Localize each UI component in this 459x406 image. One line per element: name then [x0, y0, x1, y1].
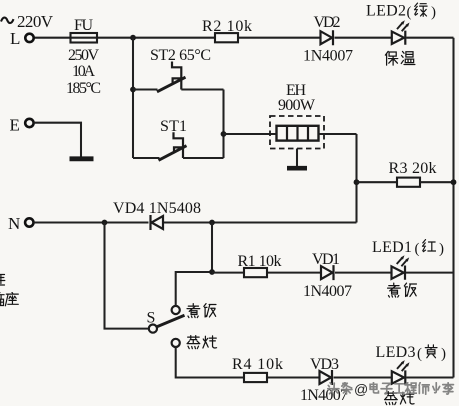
diode VD2: [321, 30, 334, 45]
svg-text:): ): [439, 241, 444, 257]
thermostat ST1: [159, 132, 187, 160]
wire zhengdun contact to R4 line: [176, 347, 244, 378]
label zhufan switch: [187, 304, 216, 318]
svg-text:1N4007: 1N4007: [303, 283, 352, 300]
switch contact zhufan: [172, 306, 180, 314]
svg-text:LED1: LED1: [372, 239, 412, 256]
label zhengdun switch: [187, 336, 217, 349]
svg-text:ST2 65°C: ST2 65°C: [150, 47, 211, 64]
fuse FU: [71, 33, 98, 43]
wire ST branch vertical: [222, 90, 224, 159]
LED2: [392, 20, 410, 45]
wire R1 row: [212, 272, 454, 274]
svg-text:(: (: [415, 241, 420, 257]
wire N bus: [34, 221, 357, 223]
wire EH to N vertical: [355, 134, 357, 223]
svg-text:220V: 220V: [17, 12, 54, 31]
label LED1 (red): [372, 239, 444, 257]
wire L bus top: [34, 37, 454, 39]
wire R3 right: [420, 181, 454, 183]
junction dot F: [102, 220, 108, 226]
wire N to switch pole: [105, 223, 149, 329]
resistor R2: [215, 33, 238, 42]
terminal L: [25, 34, 33, 42]
svg-text:(: (: [417, 346, 422, 362]
svg-text:L: L: [10, 29, 20, 48]
svg-text:900W: 900W: [278, 97, 316, 114]
LED1: [392, 255, 410, 280]
svg-text:VD4 1N5408: VD4 1N5408: [113, 200, 201, 217]
switch S blade: [157, 315, 185, 327]
svg-text:FU: FU: [74, 17, 93, 34]
svg-text:S: S: [147, 310, 156, 327]
svg-text:N: N: [8, 214, 20, 233]
wire to EH: [224, 133, 277, 135]
svg-text:@: @: [354, 381, 368, 397]
label baowen: [385, 51, 415, 65]
ground under EH: [287, 149, 307, 169]
svg-text:E: E: [10, 116, 20, 135]
label zhufan LED1: [388, 283, 417, 297]
label LED2 (green): [366, 3, 436, 21]
junction dot D: [354, 179, 360, 185]
svg-text:R1 10k: R1 10k: [238, 253, 282, 270]
switch S pole contact: [149, 325, 157, 333]
svg-text:R3 20k: R3 20k: [389, 160, 437, 177]
wire EH right: [319, 133, 357, 135]
wire ST1 right: [183, 157, 224, 159]
terminal N: [25, 218, 33, 226]
svg-text:LED3: LED3: [376, 344, 416, 361]
svg-text:): ): [431, 5, 436, 21]
junction dot B: [130, 87, 136, 93]
heater EH dashed enclosure: [270, 116, 324, 149]
svg-text:1N4007: 1N4007: [303, 48, 353, 65]
svg-text:LED2: LED2: [366, 3, 406, 20]
wire right bus vertical: [452, 38, 454, 378]
junction dot A: [130, 35, 136, 41]
svg-text:VD2: VD2: [314, 14, 341, 31]
wire ST1 left: [133, 157, 160, 159]
label LED3 (yellow): [376, 344, 447, 362]
wire R3 left: [357, 181, 398, 183]
svg-text:(: (: [407, 5, 412, 21]
wire zhufan contact to R1 line: [176, 272, 212, 306]
svg-text:VD1: VD1: [312, 251, 340, 268]
ground E: [70, 156, 94, 161]
svg-text:ST1: ST1: [160, 118, 187, 135]
svg-text:): ): [441, 346, 446, 362]
wire E to ground: [34, 123, 81, 157]
node label chazuo partial left edge: [0, 292, 18, 306]
diode VD3: [320, 370, 333, 385]
svg-text:VD3: VD3: [310, 356, 339, 373]
svg-text:R4 10k: R4 10k: [232, 356, 283, 373]
svg-text:R2 10k: R2 10k: [202, 18, 252, 35]
wire left branch vertical: [132, 38, 134, 158]
terminal E: [25, 119, 33, 127]
node label jian partial left edge: [0, 275, 5, 287]
junction dot C: [221, 131, 227, 137]
wire ST2 right: [181, 88, 223, 90]
resistor R1: [244, 268, 267, 277]
label ~220V: [1, 18, 14, 23]
LED3: [392, 360, 410, 385]
heater EH element: [277, 126, 319, 141]
svg-text:10A: 10A: [72, 63, 95, 80]
svg-text:250V: 250V: [68, 47, 99, 64]
svg-text:185°C: 185°C: [66, 80, 101, 97]
resistor R3: [397, 178, 420, 187]
label zhengdun LED3: [385, 392, 415, 405]
thermostat ST2: [157, 62, 186, 92]
resistor R4: [244, 373, 267, 382]
diode VD1: [321, 265, 334, 280]
wire R4 row: [267, 376, 454, 378]
switch contact zhengdun: [172, 339, 180, 347]
wire ST2 left: [133, 88, 158, 90]
junction dot H: [209, 269, 215, 275]
diode VD4: [151, 215, 164, 230]
wire N dot to R1 line: [211, 223, 213, 273]
junction dot G: [209, 220, 215, 226]
watermark toutiao: [328, 381, 454, 397]
junction dot E2: [451, 179, 457, 185]
